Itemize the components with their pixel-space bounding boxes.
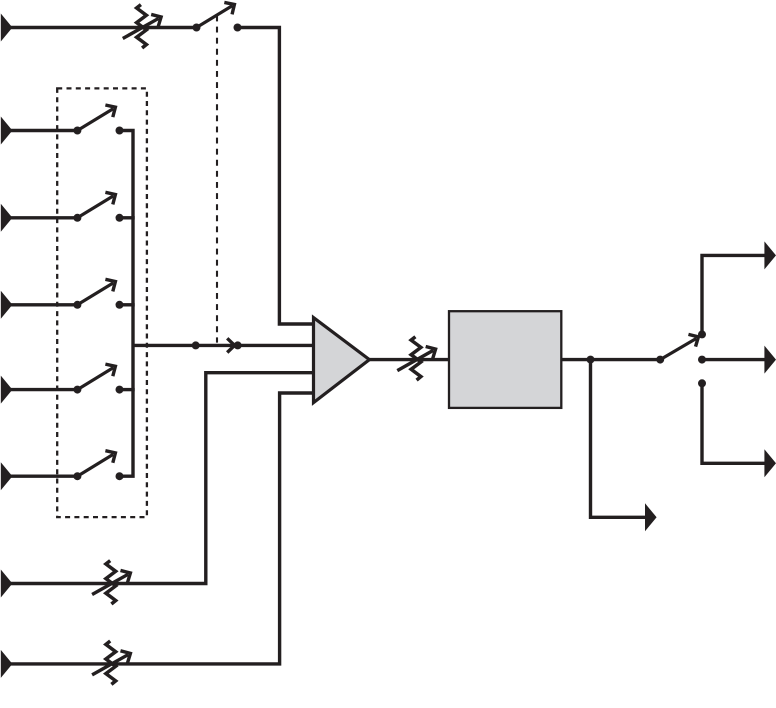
switch S7 throw dot T1 — [698, 330, 706, 338]
switch S5 arm arrowhead — [105, 360, 119, 376]
variable attenuator AT2 — [92, 561, 134, 604]
summing amplifier U1 — [314, 318, 370, 403]
switch S2 arm arrowhead — [105, 101, 119, 117]
switch S6 arm — [77, 454, 113, 476]
switch S5 arm — [77, 368, 113, 390]
switch S4 arm arrowhead — [105, 275, 119, 291]
switch S3 arm arrowhead — [105, 188, 119, 204]
wire — [133, 344, 314, 347]
switch S1a arm arrowhead — [224, 0, 238, 14]
switch S6 arm arrowhead — [105, 447, 119, 463]
variable attenuator AT4 — [397, 337, 439, 380]
input terminal IN6 — [1, 462, 13, 490]
switch S3 throw dot — [116, 214, 124, 222]
wire — [8, 129, 77, 132]
input terminal IN8 — [1, 650, 13, 678]
switch S7 pole dot — [656, 356, 664, 364]
switch S4 pole dot — [73, 301, 81, 309]
wire — [8, 216, 77, 219]
switch S3 arm — [77, 196, 113, 218]
switch S1a throw dot — [234, 24, 242, 32]
input terminal IN3 — [1, 204, 13, 232]
output terminal OUT4 — [645, 503, 657, 531]
switch S1a pole dot — [193, 24, 201, 32]
wire — [8, 388, 77, 391]
block A1 — [449, 311, 561, 408]
input terminal IN4 — [1, 291, 13, 319]
wire — [369, 358, 449, 361]
switch S7 throw dot T2 — [698, 356, 706, 364]
switch S2 arm — [77, 109, 113, 131]
wire — [8, 393, 314, 664]
output terminal OUT3 — [764, 449, 776, 477]
output terminal OUT1 — [764, 241, 776, 269]
switch S5 throw dot — [116, 386, 124, 394]
input terminal IN5 — [1, 376, 13, 404]
variable attenuator AT1 — [123, 5, 165, 48]
junction — [587, 356, 595, 364]
input terminal IN2 — [1, 117, 13, 145]
switch S1b pole dot — [192, 341, 200, 349]
switch S1b arm arrowhead (closed) — [227, 338, 234, 352]
wire — [238, 28, 314, 325]
switch S1a arm — [197, 6, 233, 28]
switch S6 throw dot — [116, 472, 124, 480]
selector group boundary (dashed box) — [57, 88, 147, 517]
wire — [591, 360, 646, 518]
wire — [120, 303, 135, 306]
switch S2 pole dot — [73, 127, 81, 135]
wire — [120, 216, 135, 219]
output terminal OUT2 — [764, 346, 776, 374]
wire — [702, 383, 765, 463]
wire — [702, 358, 765, 361]
switch S7 arm — [660, 339, 696, 360]
wire — [8, 303, 77, 306]
switch S7 throw dot T3 — [698, 379, 706, 387]
input terminal IN1 — [1, 14, 13, 42]
wire — [120, 388, 135, 391]
switch S4 arm — [77, 283, 113, 305]
switch S2 throw dot — [116, 127, 124, 135]
variable attenuator AT3 — [92, 641, 134, 684]
switch S3 pole dot — [73, 214, 81, 222]
wire — [8, 475, 77, 478]
switch S6 pole dot — [73, 472, 81, 480]
input terminal IN7 — [1, 570, 13, 598]
wire — [561, 358, 660, 361]
wire — [8, 26, 197, 29]
wire — [702, 255, 765, 334]
switch S5 pole dot — [73, 386, 81, 394]
mechanical gang link (dashed) — [216, 16, 218, 343]
switch S7 arm arrowhead — [688, 331, 702, 347]
switch S1b throw dot — [234, 341, 242, 349]
bus wire — [120, 131, 134, 477]
switch S4 throw dot — [116, 301, 124, 309]
wire — [8, 373, 314, 584]
